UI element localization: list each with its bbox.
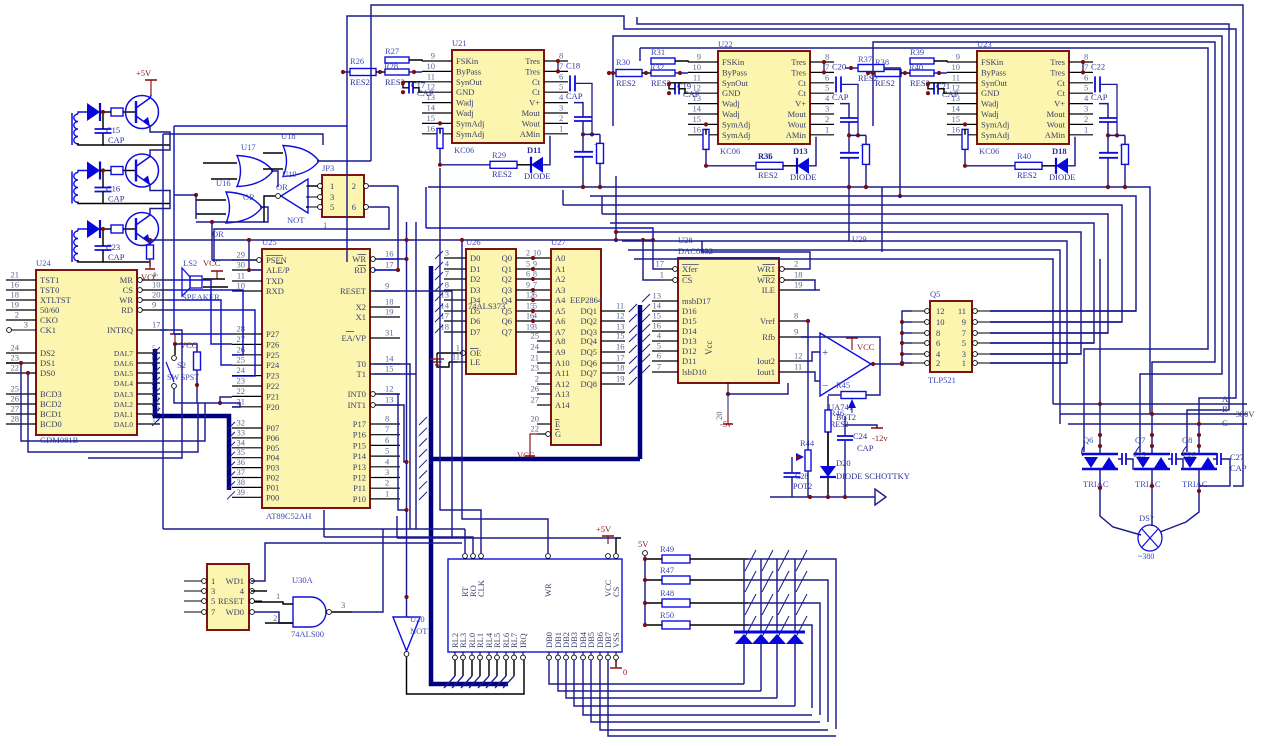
wire nand in2 <box>254 612 293 623</box>
svg-text:10: 10 <box>427 61 436 71</box>
wire left v2d <box>162 134 164 529</box>
pin CS U32 <box>611 554 621 597</box>
junction q7c <box>1150 444 1154 448</box>
wire u16 in2 <box>196 213 226 215</box>
svg-text:1: 1 <box>385 488 389 498</box>
IC U22 KC06 <box>718 39 810 156</box>
svg-text:1: 1 <box>1084 124 1088 134</box>
svg-text:5: 5 <box>330 202 334 212</box>
svg-text:5: 5 <box>962 338 966 348</box>
junction chain <box>963 164 967 168</box>
wire RL0 <box>471 660 473 676</box>
pin 38 P01 U25 <box>232 477 279 493</box>
wire mid y250 <box>628 250 1060 424</box>
svg-text:3: 3 <box>445 248 449 258</box>
wire DB2 <box>566 660 777 698</box>
wire RL4 <box>488 660 490 676</box>
svg-text:C26: C26 <box>1183 450 1196 459</box>
svg-text:D5: D5 <box>470 306 480 316</box>
svg-text:P02: P02 <box>266 473 279 483</box>
svg-text:A2: A2 <box>555 274 565 284</box>
svg-text:16: 16 <box>11 280 20 290</box>
wire R48 left <box>645 602 662 604</box>
wire net to R30 <box>608 72 616 74</box>
wire net to R26 <box>342 71 350 73</box>
svg-text:G: G <box>555 429 561 439</box>
svg-text:17: 17 <box>385 260 394 270</box>
junction capt2 <box>101 227 105 231</box>
wire tres tie <box>1082 62 1084 72</box>
wire u24 P27 <box>174 333 232 335</box>
wire rv tie <box>583 133 600 135</box>
svg-text:Wadj: Wadj <box>981 109 999 119</box>
wire u17 out <box>271 171 278 187</box>
wire t0 <box>374 364 410 529</box>
svg-text:DS1: DS1 <box>40 358 55 368</box>
svg-text:Tres: Tres <box>791 57 806 67</box>
capacitor filter U22 <box>840 118 858 122</box>
wire DB6 <box>600 660 828 730</box>
pin RL5 U32 <box>492 633 502 660</box>
pin 13 INT1 U25 <box>348 395 400 411</box>
wire mid y187v <box>425 187 427 228</box>
pin 3 4 WDbox <box>184 586 262 596</box>
wire rv net <box>599 134 601 143</box>
pin RT U32 <box>460 554 470 597</box>
svg-text:D15: D15 <box>682 316 697 326</box>
svg-text:KC06: KC06 <box>454 145 474 155</box>
svg-text:FSKin: FSKin <box>722 57 745 67</box>
svg-text:6: 6 <box>559 71 563 81</box>
wire cap bot <box>78 250 103 262</box>
bus entry P16 <box>419 428 427 436</box>
wire vcc20 right <box>728 383 788 394</box>
pin 15 T1 U25 <box>357 364 400 380</box>
svg-text:3: 3 <box>211 586 215 596</box>
bus entry DAL0 <box>152 418 160 426</box>
pin 8 DAL4 U24 <box>114 374 160 389</box>
pin 7 D2 U26 <box>444 269 480 285</box>
svg-text:DS0: DS0 <box>40 368 55 378</box>
bus entry P13 <box>419 460 427 468</box>
svg-text:A9: A9 <box>555 347 565 357</box>
junction C17 b <box>401 90 405 94</box>
inverter U20 NOT <box>393 614 428 656</box>
resistor R44 <box>800 438 815 471</box>
svg-text:DAL5: DAL5 <box>114 369 133 378</box>
svg-text:WR1: WR1 <box>757 264 775 274</box>
svg-text:CS: CS <box>682 275 693 285</box>
wire vref <box>801 321 808 337</box>
svg-text:ByPass: ByPass <box>981 67 1006 77</box>
bus entry DAL7 <box>152 347 160 355</box>
wire R40 to pin10 <box>934 72 947 74</box>
pin 6 P15 U25 <box>353 435 400 451</box>
pin 10 ByPass U22 <box>688 62 747 78</box>
svg-text:U18: U18 <box>281 131 296 141</box>
junction rail3 <box>843 495 847 499</box>
bus entry msbD17 <box>642 294 650 302</box>
pin 4 Q5 <box>912 349 941 359</box>
wire emitter2 <box>150 185 170 215</box>
svg-text:10: 10 <box>237 281 246 291</box>
svg-text:CAP: CAP <box>1230 463 1247 473</box>
triac Q8 <box>1181 435 1217 489</box>
svg-text:V+: V+ <box>529 98 540 108</box>
svg-text:20: 20 <box>531 414 540 424</box>
svg-text:19: 19 <box>616 374 625 384</box>
or-gate U17 <box>237 142 288 192</box>
resistor R42v <box>962 129 968 149</box>
wire row1 <box>748 580 828 722</box>
wire wr1 link <box>702 241 810 269</box>
wire mid y205 <box>563 205 1122 322</box>
svg-text:21: 21 <box>11 270 20 280</box>
svg-text:-5v: -5v <box>720 419 732 429</box>
resistor R31 <box>651 47 675 64</box>
wire Q5-A5 <box>516 310 551 312</box>
svg-text:5: 5 <box>825 83 829 93</box>
or-gate U18 <box>281 131 319 177</box>
pin 12 INT0 U25 <box>348 384 400 400</box>
pin 37 P02 U25 <box>232 467 279 483</box>
svg-text:WD0: WD0 <box>226 607 244 617</box>
svg-text:D3: D3 <box>470 285 480 295</box>
junction aux616 <box>614 238 618 242</box>
pin 5 Q5 <box>962 338 990 348</box>
wire vref2 <box>807 337 809 430</box>
junction m2 <box>598 185 602 189</box>
svg-text:9: 9 <box>385 281 389 291</box>
pin 8 Q5 <box>912 328 940 338</box>
pin 29 PSEN U25 <box>232 250 287 266</box>
wire symadj16 <box>964 129 966 134</box>
pin 5 Ct U23 <box>1057 83 1093 99</box>
svg-text:DAL4: DAL4 <box>114 379 133 388</box>
svg-text:18: 18 <box>385 297 394 307</box>
pin 23 A11 U27 <box>531 363 570 379</box>
svg-text:Iout1: Iout1 <box>757 367 775 377</box>
wire RL1 <box>479 660 481 676</box>
svg-text:1: 1 <box>330 181 334 191</box>
pin 5 D12 U28 <box>652 341 697 357</box>
wire rv tie <box>1108 134 1125 136</box>
wire column 1 <box>760 559 762 631</box>
junction clusterB U23 <box>1123 185 1127 189</box>
svg-text:R36: R36 <box>758 151 773 161</box>
wire column 0 lower <box>743 644 745 684</box>
svg-text:Wadj: Wadj <box>722 109 740 119</box>
wire mid y214v <box>601 196 603 214</box>
svg-text:27: 27 <box>11 404 20 414</box>
junction capt1 <box>101 168 105 172</box>
svg-text:11: 11 <box>616 301 624 311</box>
resistor R34v <box>703 129 709 149</box>
pin 13 DQ3 U27 <box>580 322 625 338</box>
svg-text:8: 8 <box>825 52 829 62</box>
wire left v1d <box>173 126 175 334</box>
svg-text:Q3: Q3 <box>502 285 512 295</box>
svg-text:Wout: Wout <box>788 119 807 129</box>
inverter U19 NOT <box>276 169 308 225</box>
svg-text:U26: U26 <box>466 237 481 247</box>
svg-text:Q5: Q5 <box>930 289 940 299</box>
capacitor filter U23 <box>1099 118 1117 122</box>
pin 2 Q5 <box>912 358 940 368</box>
speaker LS2 <box>182 258 220 302</box>
pot arrow R44 <box>796 453 804 461</box>
capacitor electrolytic U23 <box>1099 141 1124 158</box>
pin 2 WR1 U28 <box>757 259 801 275</box>
svg-text:INT0: INT0 <box>348 389 366 399</box>
capacitor C22 <box>1091 61 1108 102</box>
svg-text:14: 14 <box>952 104 961 114</box>
svg-text:P03: P03 <box>266 463 279 473</box>
pin 27 A14 U27 <box>531 395 571 411</box>
wire spk top <box>203 278 225 280</box>
pin 8 Tres U21 <box>525 51 568 67</box>
junction tres1 <box>556 59 560 63</box>
svg-text:A0: A0 <box>555 253 565 263</box>
triac Q6 <box>1082 435 1118 489</box>
pin 12 Iout2 U28 <box>757 351 802 367</box>
pin 9 RESET U25 <box>340 281 400 297</box>
bus entry RL6 <box>495 676 506 688</box>
wire v+ net2 <box>848 122 850 153</box>
svg-text:RESET: RESET <box>218 596 245 606</box>
junction R50 <box>643 623 647 627</box>
svg-text:16: 16 <box>952 124 961 134</box>
transistor Q2 <box>126 154 159 187</box>
power VCC U29 <box>846 338 875 352</box>
diode diode D18 <box>1049 146 1075 182</box>
wire cap top <box>102 112 104 129</box>
svg-text:SymAdj: SymAdj <box>981 130 1009 140</box>
svg-text:A6: A6 <box>555 316 565 326</box>
resistor R46 <box>825 408 844 432</box>
pin 7 WD0 WDbox <box>184 607 262 617</box>
svg-text:U20: U20 <box>410 614 425 624</box>
pin 9 FSKin U21 <box>422 51 479 67</box>
pin 12 Q5 <box>912 306 945 316</box>
pin 11 DQ1 U27 <box>580 301 625 317</box>
wire C17 dn <box>413 88 422 92</box>
wire Q4-A4 <box>516 299 551 301</box>
capacitor cap C17 <box>409 80 434 98</box>
bus entry P17 <box>419 417 427 425</box>
pin 24 A9 U27 <box>531 342 566 358</box>
wire left v1 <box>174 125 347 127</box>
svg-text:AMin: AMin <box>520 129 541 139</box>
svg-text:lsbD10: lsbD10 <box>682 367 707 377</box>
op-amp U29 UA741 <box>820 333 871 412</box>
pin 14 Wadj U21 <box>422 103 474 119</box>
transistor Q3 <box>126 213 159 246</box>
pin 1 OE U26 <box>456 343 482 359</box>
junction clusterB U22 <box>864 185 868 189</box>
svg-text:D16: D16 <box>682 306 697 316</box>
bus entry RL7 <box>503 676 514 688</box>
capacitor cap C21 <box>934 81 959 99</box>
svg-text:RES2: RES2 <box>1017 170 1037 180</box>
svg-text:14: 14 <box>653 301 662 311</box>
bus entry DQ3 <box>629 325 637 333</box>
svg-text:Q6: Q6 <box>502 316 512 326</box>
wire nand in2b <box>265 622 293 624</box>
pin Q3 U26 <box>502 285 516 295</box>
bus entry D11 <box>642 354 650 362</box>
pin 11 TXD U25 <box>232 271 283 287</box>
wire r46 <box>827 396 829 410</box>
wire Q6-A6 <box>516 320 551 322</box>
svg-text:24: 24 <box>237 365 246 375</box>
wire symadj chain <box>706 149 756 165</box>
wire tres tie <box>823 62 825 72</box>
svg-text:12: 12 <box>936 306 945 316</box>
diode D in2 <box>87 162 100 180</box>
svg-text:U28: U28 <box>678 235 693 245</box>
wire RL3 <box>462 660 464 676</box>
wire mid y241 <box>622 241 1067 363</box>
bus entry D3 <box>435 283 443 291</box>
svg-text:C25: C25 <box>1133 450 1146 459</box>
svg-text:R49: R49 <box>660 544 674 554</box>
svg-text:7: 7 <box>211 607 215 617</box>
switch key r0c3 <box>796 550 807 571</box>
wire s2 res <box>175 344 197 352</box>
pin 8 P17 U25 <box>353 414 400 430</box>
svg-text:1: 1 <box>962 358 966 368</box>
bus entry P10 <box>419 492 427 500</box>
wire int1 <box>379 405 407 462</box>
wire nand out <box>332 611 352 613</box>
capacitor C24 <box>837 431 868 441</box>
wire RL5 <box>496 660 498 676</box>
junction i0 <box>404 508 408 512</box>
pin 3 Mout U21 <box>522 103 568 119</box>
resistor R49 <box>660 544 690 563</box>
pin 14 Wadj U22 <box>688 104 740 120</box>
pin 26 P25 U25 <box>232 344 279 360</box>
svg-text:8: 8 <box>533 270 537 279</box>
wire Q1-A1 <box>516 268 551 270</box>
svg-text:VCC: VCC <box>141 272 159 282</box>
svg-text:WR: WR <box>119 295 133 305</box>
wire c25 l <box>1118 458 1122 460</box>
pin Q5 U26 <box>502 306 516 316</box>
switch key r0c2 <box>778 550 789 571</box>
pin 20 WR U24 <box>119 290 167 306</box>
wire Vcc20 <box>727 394 729 414</box>
svg-text:P10: P10 <box>353 494 366 504</box>
pin 13 Wadj U23 <box>947 93 999 109</box>
svg-text:7: 7 <box>559 61 563 71</box>
svg-text:CAP: CAP <box>857 443 874 453</box>
wire row3 <box>748 625 812 708</box>
wire v+ net3 <box>582 157 584 187</box>
wire C18 lead <box>575 83 592 134</box>
pin 15 DAL0 U24 <box>114 415 160 430</box>
bus entry D5 <box>435 304 443 312</box>
svg-text:P00: P00 <box>266 492 279 502</box>
wire LE gnd2 <box>437 353 449 367</box>
pin 39 P00 U25 <box>232 487 279 503</box>
wire DB5 <box>591 660 820 722</box>
svg-text:32: 32 <box>237 418 246 428</box>
pin 25 P24 U25 <box>232 355 280 371</box>
bus entry P15 <box>419 438 427 446</box>
bus entry RL2 <box>444 676 455 688</box>
bus entry P04 <box>227 452 235 460</box>
wire cs u32 <box>616 538 621 553</box>
resistor R26 <box>350 56 376 87</box>
junction ds1 <box>19 361 23 365</box>
pin 13 msbD17 U28 <box>652 291 711 307</box>
svg-text:A13: A13 <box>555 389 570 399</box>
wire s2 to P21b <box>220 397 232 403</box>
svg-text:Wadj: Wadj <box>456 98 474 108</box>
wire R26 to R28 <box>376 71 385 73</box>
pin 15 SymAdj U23 <box>947 114 1009 129</box>
bus entry D0 <box>435 251 443 259</box>
pin 16 WR U25 <box>352 249 400 265</box>
svg-text:C20: C20 <box>832 61 846 71</box>
bus entry D6 <box>435 314 443 322</box>
diode D key1 <box>752 634 770 644</box>
pin 1 P10 U25 <box>353 488 400 504</box>
svg-text:P22: P22 <box>266 381 279 391</box>
pin 18 X2 U25 <box>356 297 400 313</box>
svg-text:INT1: INT1 <box>348 400 366 410</box>
capacitor electrolytic U21 <box>574 140 599 157</box>
svg-text:3: 3 <box>559 103 563 113</box>
svg-text:P05: P05 <box>266 443 279 453</box>
capacitor C28 <box>784 473 801 477</box>
pin 21 P20 U25 <box>232 396 279 412</box>
pin 34 P05 U25 <box>232 437 279 453</box>
pin 2 A12 U27 <box>535 374 570 390</box>
pin 18 XTLTST U24 <box>6 290 72 306</box>
pin RL6 U32 <box>501 633 511 660</box>
wire rt u32 <box>464 529 466 553</box>
svg-text:A1: A1 <box>555 264 565 274</box>
pin 9 Q5 <box>962 317 990 327</box>
switch key r3c2 <box>778 616 789 637</box>
wire not in upper <box>406 222 408 510</box>
svg-text:Wadj: Wadj <box>981 99 999 109</box>
pin 6 D11 U28 <box>652 351 696 367</box>
wire DB1 <box>558 660 761 691</box>
junction r44 <box>796 455 800 459</box>
resistor Rv U21 <box>597 143 604 163</box>
svg-text:8: 8 <box>559 51 563 61</box>
wire top n6 <box>640 48 1208 452</box>
pin RL4 U32 <box>484 632 494 660</box>
wire v+ net3 <box>1107 158 1109 187</box>
ground U26 inputs <box>430 355 444 365</box>
svg-text:5: 5 <box>1084 83 1088 93</box>
wire analog gnd rail <box>770 496 875 498</box>
wire t1 v <box>415 222 417 529</box>
wire column 1 lower <box>760 644 762 691</box>
wire int0 <box>379 394 407 510</box>
wire C22 lead <box>1100 84 1117 135</box>
junction vcc20 <box>726 392 730 396</box>
svg-text:A3: A3 <box>555 285 565 295</box>
wire mid y223 <box>610 223 1094 343</box>
svg-text:Ct: Ct <box>1057 88 1066 98</box>
wire column 0 <box>743 559 745 631</box>
